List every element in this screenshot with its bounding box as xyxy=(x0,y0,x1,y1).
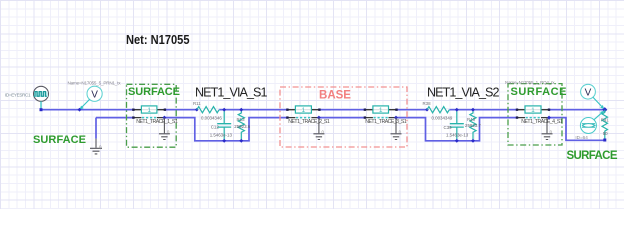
wire source stem xyxy=(40,101,42,109)
node output xyxy=(602,107,607,112)
node ground tap 4 xyxy=(547,116,551,120)
svg-text:Name=N17055_1_PQ4_rx: Name=N17055_1_PQ4_rx xyxy=(505,80,555,85)
resistor R13 xyxy=(234,110,250,141)
svg-text:ID=64: ID=64 xyxy=(575,135,588,140)
trace NET1_TRACE_4_S1 xyxy=(516,106,563,125)
svg-text:0.0034346: 0.0034346 xyxy=(201,115,222,120)
svg-text:V: V xyxy=(91,90,98,101)
resistor R11 xyxy=(193,101,222,120)
trace NET1_TRACE_3_S1 xyxy=(364,106,407,125)
svg-text:ID=EYESRC1: ID=EYESRC1 xyxy=(5,92,31,97)
svg-text:0.0034349: 0.0034349 xyxy=(432,115,453,120)
node R40 bottom xyxy=(471,139,475,143)
node source start xyxy=(40,108,43,111)
svg-text:C39: C39 xyxy=(444,125,453,130)
ground G3 xyxy=(391,118,402,140)
svg-text:1: 1 xyxy=(302,107,306,114)
svg-text:NET1_VIA_S2: NET1_VIA_S2 xyxy=(427,86,500,100)
resistor R38 xyxy=(423,101,453,120)
svg-text:25923.6: 25923.6 xyxy=(234,124,250,129)
trace NET1_TRACE_2_S1 xyxy=(286,106,330,125)
wire return left ground drop xyxy=(95,118,97,139)
node R40 top xyxy=(471,108,475,112)
svg-text:Name=N17055_5_PRN1_tx: Name=N17055_5_PRN1_tx xyxy=(68,81,122,86)
node V1 tap xyxy=(78,108,82,112)
svg-text:R41: R41 xyxy=(601,117,610,122)
svg-text:SURFACE: SURFACE xyxy=(567,150,618,162)
ground G1 xyxy=(159,118,170,140)
voltmeter V1 xyxy=(80,86,103,109)
svg-text:1: 1 xyxy=(531,107,535,114)
ground G0 left xyxy=(90,139,102,154)
svg-text:1.5463e-13: 1.5463e-13 xyxy=(210,132,233,137)
svg-text:C12: C12 xyxy=(211,125,220,130)
svg-text:1: 1 xyxy=(379,107,383,114)
eye probe ID=64 xyxy=(575,111,604,140)
SURFACE box 2 xyxy=(508,84,562,145)
node R11 left xyxy=(195,108,199,112)
node C12 bottom xyxy=(222,139,226,143)
wire return main xyxy=(96,118,605,141)
svg-text:25923.7: 25923.7 xyxy=(465,123,481,128)
resistor R41 xyxy=(601,110,610,140)
capacitor C12 xyxy=(210,110,233,141)
node C12 top xyxy=(222,108,226,112)
svg-text:R38: R38 xyxy=(423,101,432,106)
svg-text:1: 1 xyxy=(147,107,151,114)
eye source U_SRC circle xyxy=(34,86,49,101)
node R13 bottom xyxy=(239,139,243,143)
svg-text:NET1_TRACE_3_S1: NET1_TRACE_3_S1 xyxy=(365,119,407,125)
svg-text:NET1_TRACE_1_S1: NET1_TRACE_1_S1 xyxy=(136,119,178,125)
node return end xyxy=(603,139,606,142)
svg-text:R40: R40 xyxy=(467,117,476,122)
svg-text:R11: R11 xyxy=(193,101,201,106)
node R38 left xyxy=(425,108,429,112)
svg-text:SURFACE: SURFACE xyxy=(128,86,180,98)
node C39 top xyxy=(455,108,459,112)
BASE box xyxy=(280,87,407,147)
svg-text:50: 50 xyxy=(603,131,608,136)
svg-text:Net: N17055: Net: N17055 xyxy=(126,32,190,47)
node C39 bottom xyxy=(455,139,459,143)
svg-text:NET1_VIA_S1: NET1_VIA_S1 xyxy=(195,86,268,100)
trace NET1_TRACE_1_S1 xyxy=(132,106,178,125)
svg-text:1.5463e-13: 1.5463e-13 xyxy=(446,132,469,137)
svg-text:R13: R13 xyxy=(237,117,246,122)
svg-text:V: V xyxy=(585,87,592,98)
node ground tap 2 xyxy=(317,116,321,120)
svg-text:NET1_TRACE_4_S1: NET1_TRACE_4_S1 xyxy=(521,119,563,125)
svg-text:BASE: BASE xyxy=(319,89,351,101)
node R13 top xyxy=(239,108,243,112)
node ground tap 1 xyxy=(162,116,166,120)
SURFACE box 1 xyxy=(127,84,177,147)
resistor R40 xyxy=(465,110,481,141)
wire signal main xyxy=(41,109,605,111)
node ground tap 3 xyxy=(394,116,398,120)
svg-text:NET1_TRACE_2_S1: NET1_TRACE_2_S1 xyxy=(288,119,330,125)
svg-text:SURFACE: SURFACE xyxy=(33,134,86,146)
voltmeter V2 xyxy=(581,84,605,109)
ground G2 xyxy=(313,118,324,140)
capacitor C39 xyxy=(444,110,469,141)
ground G4 xyxy=(542,118,553,140)
svg-text:SURFACE: SURFACE xyxy=(511,86,567,98)
